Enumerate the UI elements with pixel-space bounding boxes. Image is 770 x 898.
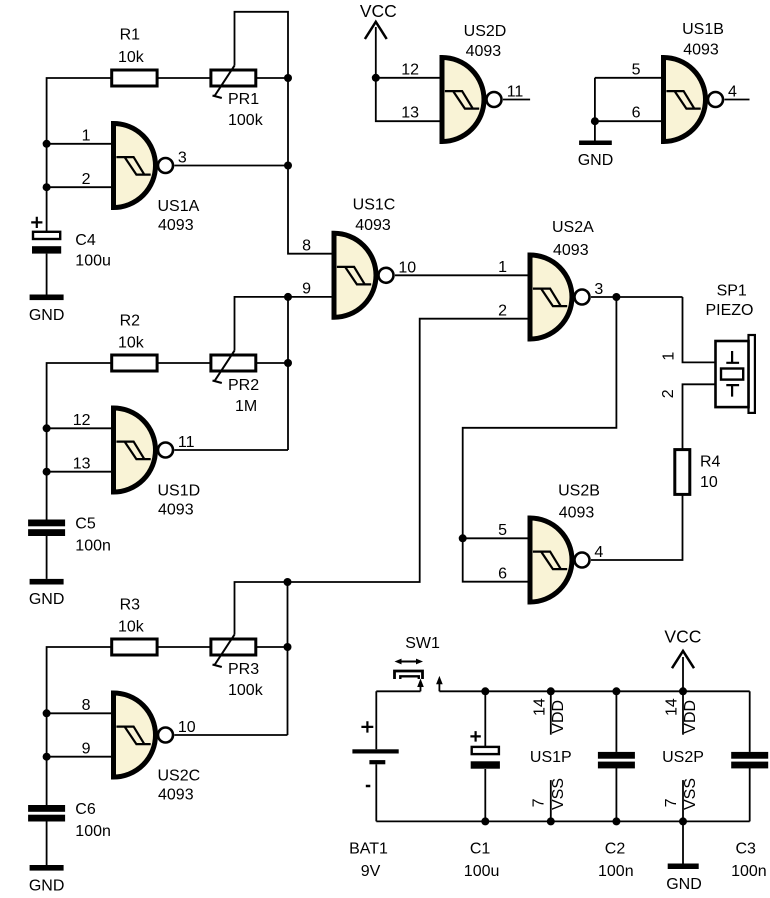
svg-text:11: 11 [507, 84, 524, 101]
svg-text:C5: C5 [75, 515, 96, 532]
NAND gate US2B [530, 518, 590, 602]
junction node PR3 right [284, 643, 292, 651]
junction node PR2 right [284, 359, 292, 367]
svg-text:4093: 4093 [466, 43, 502, 60]
svg-text:10k: 10k [118, 334, 145, 351]
wire top rail [439, 690, 749, 692]
wire US1A pin1 [47, 143, 111, 145]
wire US2B pin6 [463, 538, 528, 581]
wire US2A out to SP1 pin1 [683, 297, 716, 362]
NAND gate US2D [442, 58, 502, 142]
junction [591, 117, 599, 125]
wire R1 left feed to US1A inputs/C4 [47, 78, 112, 232]
wire US2P gnd stem [682, 821, 684, 863]
wire R2-PR2 [157, 362, 211, 364]
wire C2 top [615, 691, 617, 752]
svg-text:1: 1 [82, 128, 91, 145]
junction [43, 424, 51, 432]
svg-text:100u: 100u [75, 252, 111, 269]
wire PR3 wiper loop to US2A pin2 riser [235, 319, 528, 635]
svg-text:10: 10 [178, 719, 196, 736]
junction US1A output node [284, 162, 292, 170]
svg-text:13: 13 [73, 456, 91, 473]
svg-text:100n: 100n [75, 538, 111, 555]
svg-text:C1: C1 [470, 841, 491, 858]
NAND gate US2C [114, 693, 174, 777]
switch SW1 [395, 659, 443, 692]
junction [547, 687, 555, 695]
svg-text:4: 4 [594, 544, 603, 561]
svg-text:PR1: PR1 [228, 91, 259, 108]
svg-text:8: 8 [82, 697, 91, 714]
wire PR2 wiper loop / US1C pin9 [235, 297, 332, 351]
svg-text:4093: 4093 [553, 242, 589, 259]
svg-text:6: 6 [632, 105, 641, 122]
capacitor C4 plus [31, 217, 42, 228]
potentiometer PR1 [211, 66, 256, 98]
wire bottom rail [376, 820, 749, 822]
wire PR1 right [256, 77, 288, 79]
svg-text:100u: 100u [464, 863, 500, 880]
wire battery to switch [376, 690, 420, 692]
svg-text:PR2: PR2 [228, 377, 259, 394]
NAND gate US1A [114, 124, 174, 208]
svg-text:VDD: VDD [550, 700, 567, 734]
svg-text:10: 10 [398, 259, 416, 276]
wire US1A output [174, 165, 288, 167]
svg-text:BAT1: BAT1 [349, 841, 388, 858]
ground C6 [29, 865, 65, 895]
junction osc3 node [284, 578, 292, 586]
wire US2B output to R4 [591, 494, 683, 560]
svg-text:VDD: VDD [682, 700, 699, 734]
svg-text:R2: R2 [120, 313, 141, 330]
junction [612, 687, 620, 695]
junction [547, 817, 555, 825]
svg-text:SP1: SP1 [717, 283, 747, 300]
NAND gate US1B [664, 58, 724, 142]
capacitor C1 plus [470, 731, 480, 742]
junction US2A output node [612, 293, 620, 301]
capacitor C1 [471, 747, 500, 769]
US2P VSS pin stub [682, 780, 684, 821]
svg-text:100n: 100n [598, 863, 634, 880]
svg-text:C2: C2 [605, 841, 626, 858]
svg-text:13: 13 [401, 105, 419, 122]
svg-text:100k: 100k [228, 682, 264, 699]
svg-text:US2P: US2P [662, 749, 704, 766]
svg-text:VSS: VSS [682, 778, 699, 810]
svg-text:3: 3 [178, 150, 187, 167]
wire C6 to ground [46, 822, 48, 866]
junction US1C pin9 node [284, 293, 292, 301]
svg-text:2: 2 [660, 389, 677, 398]
svg-text:10k: 10k [118, 618, 145, 635]
NAND gate US2A [530, 255, 590, 339]
ground C5 [29, 579, 65, 608]
svg-text:7: 7 [663, 798, 680, 807]
svg-text:5: 5 [498, 522, 507, 539]
junction [372, 74, 380, 82]
svg-text:GND: GND [29, 307, 65, 324]
wire US2D pin13 [376, 78, 440, 121]
svg-text:10k: 10k [118, 49, 145, 66]
wire US2C output [174, 734, 287, 736]
resistor R4 [675, 450, 690, 495]
ground US1B [578, 141, 614, 170]
power VCC bottom [664, 627, 701, 692]
wire R2 left feed to US1D inputs/C5 [47, 363, 112, 520]
junction [43, 709, 51, 717]
resistor R3 [112, 639, 157, 655]
svg-text:10: 10 [700, 474, 718, 491]
wire US1B pin5 [595, 77, 661, 79]
svg-text:4093: 4093 [158, 217, 194, 234]
svg-text:R4: R4 [700, 454, 721, 471]
capacitor C6 [28, 805, 65, 822]
svg-text:8: 8 [302, 238, 311, 255]
svg-text:US1C: US1C [353, 197, 396, 214]
junction [679, 687, 687, 695]
svg-text:1: 1 [660, 352, 677, 361]
wire feedback vertical to US1C pin8 [288, 78, 332, 254]
svg-text:14: 14 [531, 698, 548, 716]
wire US1C output to US2A pin1 [395, 274, 528, 276]
svg-text:1M: 1M [235, 398, 257, 415]
svg-text:US1P: US1P [530, 749, 572, 766]
wire US1B output [725, 99, 750, 101]
wire US1D pin13 [47, 471, 111, 473]
wire US1A pin2 [47, 186, 111, 188]
junction [43, 140, 51, 148]
svg-text:100k: 100k [228, 112, 264, 129]
wire US1B gnd stem [594, 121, 596, 140]
svg-text:1: 1 [498, 259, 507, 276]
svg-text:US2C: US2C [158, 768, 201, 785]
junction [43, 183, 51, 191]
speaker SP1 piezo [716, 335, 755, 413]
wire US1B pin6 [595, 78, 661, 121]
power VCC top [360, 1, 397, 78]
svg-text:US2B: US2B [558, 483, 600, 500]
svg-text:US1A: US1A [158, 198, 200, 215]
svg-text:R1: R1 [120, 27, 141, 44]
svg-text:9V: 9V [361, 863, 381, 880]
junction [43, 753, 51, 761]
resistor R2 [112, 355, 157, 371]
battery BAT1 [352, 691, 398, 821]
svg-text:C3: C3 [735, 841, 756, 858]
capacitor C5 [28, 520, 65, 537]
svg-text:SW1: SW1 [405, 635, 440, 652]
wire SP1 pin2 to R4 [683, 384, 716, 449]
wire US2C pin9 [47, 756, 111, 758]
wire US1D pin12 [47, 427, 111, 429]
junction [679, 817, 687, 825]
potentiometer PR2 [211, 351, 256, 383]
junction node PR1/feedback [284, 74, 292, 82]
svg-text:US2D: US2D [464, 23, 507, 40]
US1P VDD pin stub [550, 691, 552, 734]
svg-text:9: 9 [82, 741, 91, 758]
svg-text:5: 5 [632, 61, 641, 78]
svg-text:6: 6 [498, 566, 507, 583]
wire C1 top [484, 691, 486, 747]
wire US1D output [174, 449, 288, 451]
junction US2B input node [459, 534, 467, 542]
wire US2B pin5 [463, 537, 528, 539]
wire to US2B inputs [463, 297, 617, 538]
wire US2A output [591, 296, 683, 298]
ground C4 [29, 295, 65, 324]
US2P VDD pin stub [682, 691, 684, 734]
wire C3 top [749, 691, 751, 752]
capacitor C4 [32, 232, 61, 254]
wire feedback vertical osc3 [287, 582, 289, 735]
wire C3 bottom [749, 767, 751, 821]
svg-text:4093: 4093 [355, 217, 391, 234]
svg-text:VCC: VCC [360, 1, 397, 21]
svg-text:4: 4 [728, 84, 737, 101]
wire R3 left feed to US2C inputs/C6 [47, 647, 112, 805]
capacitor C3 [731, 752, 768, 768]
svg-text:100n: 100n [75, 823, 111, 840]
svg-text:11: 11 [178, 434, 195, 451]
junction [481, 817, 489, 825]
wire US2C pin8 [47, 712, 111, 714]
US1P VSS pin stub [550, 780, 552, 821]
junction [481, 687, 489, 695]
wire C2 bottom [615, 767, 617, 821]
svg-text:2: 2 [82, 171, 91, 188]
NAND gate US1D [114, 408, 174, 492]
svg-text:US1B: US1B [682, 21, 724, 38]
svg-text:2: 2 [498, 303, 507, 320]
NAND gate US1C [334, 233, 394, 317]
svg-text:GND: GND [666, 876, 702, 893]
svg-text:C4: C4 [75, 232, 96, 249]
potentiometer PR3 [211, 635, 256, 667]
wire PR1 wiper loop [235, 12, 289, 78]
capacitor C2 [598, 752, 635, 768]
svg-text:12: 12 [73, 412, 91, 429]
wire feedback vertical osc2 [287, 297, 289, 450]
svg-text:4093: 4093 [158, 787, 194, 804]
resistor R1 [112, 70, 157, 86]
svg-text:PIEZO: PIEZO [705, 302, 753, 319]
svg-text:GND: GND [29, 591, 65, 608]
svg-text:PR3: PR3 [228, 661, 259, 678]
wire PR2 right [256, 362, 288, 364]
svg-text:3: 3 [594, 281, 603, 298]
svg-text:US1D: US1D [158, 483, 201, 500]
svg-text:R3: R3 [120, 597, 141, 614]
wire C4 to ground [46, 254, 48, 295]
svg-text:VSS: VSS [550, 778, 567, 810]
svg-text:C6: C6 [75, 801, 96, 818]
svg-text:4093: 4093 [158, 502, 194, 519]
wire PR3 right [256, 646, 288, 648]
svg-text:100n: 100n [731, 863, 767, 880]
wire US2D pin12 [376, 77, 440, 79]
svg-text:12: 12 [401, 61, 419, 78]
svg-text:4093: 4093 [559, 505, 595, 522]
svg-text:GND: GND [578, 152, 614, 169]
svg-text:14: 14 [664, 698, 681, 716]
wire C1 bottom [484, 769, 486, 821]
wire R1-PR1 [157, 77, 211, 79]
wire US2D output [503, 99, 530, 101]
svg-text:US2A: US2A [552, 219, 594, 236]
svg-text:4093: 4093 [683, 42, 719, 59]
ground US2P [666, 864, 702, 893]
svg-text:GND: GND [29, 878, 65, 895]
junction [612, 817, 620, 825]
svg-text:7: 7 [531, 798, 548, 807]
svg-text:9: 9 [302, 281, 311, 298]
svg-text:VCC: VCC [664, 627, 701, 647]
junction [43, 468, 51, 476]
wire R3-PR3 [157, 646, 211, 648]
wire C5 to ground [46, 536, 48, 579]
